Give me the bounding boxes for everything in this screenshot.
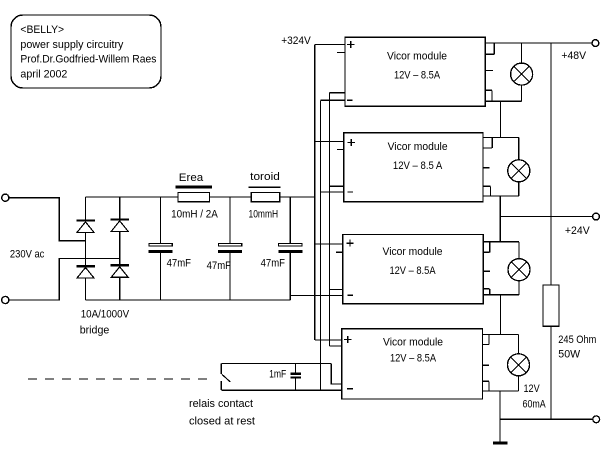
wire U2 +In bbox=[315, 140, 344, 142]
wire 0V bus bbox=[500, 418, 593, 420]
title box bbox=[11, 15, 161, 88]
label 60mA bbox=[523, 398, 547, 410]
wire U4 -S bbox=[331, 364, 342, 384]
wire U1 +Out / +48V rail bbox=[485, 42, 592, 44]
svg-text:10mmH: 10mmH bbox=[249, 209, 279, 221]
label bridge bbox=[80, 325, 110, 337]
inductor L2 toroid bbox=[249, 171, 281, 220]
wire DC+ top bus bbox=[86, 196, 315, 198]
wire U2 +Out bbox=[483, 137, 519, 139]
wire resistor bottom lead bbox=[550, 326, 552, 419]
svg-text:245 Ohm: 245 Ohm bbox=[558, 334, 596, 346]
svg-text:47mF: 47mF bbox=[261, 257, 285, 269]
wire U1 +S stub bbox=[337, 51, 345, 53]
op-amp U4 Vicor module box bbox=[342, 329, 483, 399]
svg-text:47mF: 47mF bbox=[167, 257, 191, 269]
wire U2 -S bbox=[330, 185, 344, 187]
svg-text:1mF: 1mF bbox=[269, 369, 286, 381]
lamp LP3 bbox=[508, 259, 530, 281]
lamp LP1 bbox=[511, 63, 533, 85]
wire +324V rail vertical A bbox=[314, 45, 316, 340]
pin U2 trim stub bbox=[483, 167, 490, 169]
pin U1 +Out tab bbox=[485, 43, 494, 54]
wire AC N to bridge bbox=[9, 258, 120, 300]
wire return bus B bbox=[320, 100, 322, 390]
pin U3 +Out tab bbox=[483, 242, 490, 253]
diode D2 bbox=[76, 265, 95, 278]
wire DC- bottom bus bbox=[86, 299, 291, 301]
svg-text:Erea: Erea bbox=[179, 172, 204, 184]
svg-text:toroid: toroid bbox=[250, 171, 280, 183]
wire series link U2-U3 bbox=[499, 196, 501, 242]
svg-text:10mH / 2A: 10mH / 2A bbox=[171, 209, 218, 221]
wire U2 +S stub bbox=[337, 148, 344, 150]
lamp LP2 bbox=[508, 160, 530, 182]
wire lamp LP4 bottom lead bbox=[518, 376, 520, 391]
wire U3 +Out bbox=[483, 241, 519, 243]
svg-text:+48V: +48V bbox=[561, 50, 586, 62]
wire U1 -Out bbox=[485, 100, 521, 102]
svg-text:+324V: +324V bbox=[281, 35, 311, 47]
wire lamp LP3 top lead bbox=[518, 242, 520, 259]
label +324V bbox=[281, 35, 311, 47]
op-amp U2 Vicor module box bbox=[344, 133, 483, 202]
svg-text:bridge: bridge bbox=[80, 325, 110, 337]
terminal +48V bbox=[592, 40, 599, 47]
wire ground drop bbox=[499, 391, 501, 441]
pin U4 trim stub bbox=[483, 364, 490, 366]
svg-text:Vicor module: Vicor module bbox=[387, 50, 447, 62]
capacitor C1 47mF bbox=[149, 197, 191, 300]
label +24V bbox=[565, 225, 590, 237]
svg-text:12V – 8.5 A: 12V – 8.5 A bbox=[393, 160, 443, 172]
pin U3 -Out tab bbox=[483, 289, 490, 295]
wire U3 +In bbox=[315, 243, 343, 245]
wire U3 -S bbox=[330, 288, 343, 290]
wire relay top bbox=[221, 363, 331, 365]
terminal AC N bbox=[2, 296, 9, 303]
svg-text:12V – 8.5A: 12V – 8.5A bbox=[394, 69, 440, 81]
pin U2 -Out tab bbox=[483, 186, 491, 196]
wire bridge left column bbox=[85, 197, 87, 300]
pin U1 trim stub bbox=[485, 69, 493, 71]
op-amp U3 Vicor module box bbox=[343, 235, 483, 304]
wire lamp LP2 top lead bbox=[518, 138, 520, 160]
diode D3 bbox=[110, 218, 129, 231]
svg-text:Vicor module: Vicor module bbox=[383, 336, 443, 348]
svg-text:12V: 12V bbox=[524, 383, 541, 395]
label closed at rest bbox=[189, 416, 256, 428]
wire lamp LP1 bottom lead bbox=[521, 85, 523, 101]
label 50W bbox=[558, 349, 580, 361]
diode D4 bbox=[110, 264, 129, 277]
pin U2 +Out tab bbox=[483, 138, 492, 148]
lamp LP4 bbox=[508, 354, 530, 376]
wire U4 -In / relay return bbox=[221, 389, 341, 391]
svg-text:Vicor module: Vicor module bbox=[388, 141, 448, 153]
wire U2 -In bbox=[321, 191, 344, 193]
wire U1 -In bbox=[321, 99, 346, 101]
wire U4 +In bbox=[315, 339, 342, 341]
svg-text:april 2002: april 2002 bbox=[20, 69, 67, 81]
wire sense bus C bbox=[329, 93, 331, 346]
svg-text:12V – 8.5A: 12V – 8.5A bbox=[390, 353, 436, 365]
capacitor C4 1mF bbox=[269, 364, 301, 391]
svg-text:47mF: 47mF bbox=[207, 260, 231, 272]
wire bridge right column bbox=[119, 197, 121, 300]
ground bbox=[493, 441, 508, 444]
svg-text:60mA: 60mA bbox=[523, 398, 547, 410]
svg-text:power supply circuitry: power supply circuitry bbox=[20, 39, 123, 51]
resistor R1 245 Ohm bbox=[543, 285, 559, 326]
svg-text:relais contact: relais contact bbox=[189, 398, 254, 410]
label 12V bbox=[524, 383, 541, 395]
terminal +24V bbox=[593, 213, 600, 220]
svg-text:Prof.Dr.Godfried-Willem Raes: Prof.Dr.Godfried-Willem Raes bbox=[20, 54, 156, 66]
svg-text:230V ac: 230V ac bbox=[10, 248, 45, 260]
pin U3 trim stub bbox=[483, 270, 490, 272]
label +48V bbox=[561, 50, 586, 62]
wire U2 -Out bbox=[483, 195, 519, 197]
svg-text:10A/1000V: 10A/1000V bbox=[81, 308, 130, 320]
wire U3 +S stub bbox=[336, 251, 343, 253]
wire AC L to bridge bbox=[9, 198, 85, 241]
capacitor C3 47mF bbox=[261, 197, 303, 300]
wire U4 +S bbox=[330, 345, 342, 347]
svg-text:50W: 50W bbox=[558, 349, 580, 361]
svg-text:Vicor module: Vicor module bbox=[383, 246, 443, 258]
wire series link U1-U2 bbox=[499, 101, 501, 137]
diode D1 bbox=[76, 219, 95, 232]
label relais contact bbox=[189, 398, 254, 410]
svg-text:closed at rest: closed at rest bbox=[189, 416, 256, 428]
wire U3 -Out bbox=[483, 294, 519, 296]
pin U4 +Out tab bbox=[483, 334, 490, 344]
wire lamp LP3 bottom lead bbox=[518, 281, 520, 295]
wire lamp LP4 top lead bbox=[518, 334, 520, 353]
wire lamp LP2 bottom lead bbox=[518, 182, 520, 196]
wire +324V to module U1 bbox=[315, 44, 345, 46]
svg-text:+24V: +24V bbox=[565, 225, 590, 237]
wire +48V drop to resistor bbox=[550, 43, 552, 285]
wire U3 -In to bottom bus bbox=[290, 295, 343, 297]
wire series link U3-U4 bbox=[500, 295, 502, 335]
capacitor C2 47mF bbox=[207, 197, 242, 300]
svg-text:<BELLY>: <BELLY> bbox=[20, 24, 64, 36]
terminal 0V bbox=[593, 416, 600, 423]
op-amp U1 Vicor module box bbox=[345, 37, 485, 106]
wire U4 +Out bbox=[483, 333, 519, 335]
label 245 Ohm bbox=[558, 334, 596, 346]
dashed separation line bbox=[28, 378, 210, 380]
pin U4 -Out tab bbox=[483, 381, 490, 391]
inductor L1 Erea bbox=[171, 172, 218, 221]
wire U1 -S bbox=[330, 92, 345, 94]
pin U1 -Out tab bbox=[485, 90, 492, 101]
label 10A/1000V bbox=[81, 308, 130, 320]
svg-text:12V – 8.5A: 12V – 8.5A bbox=[389, 265, 435, 277]
wire U4 -Out bbox=[483, 390, 519, 392]
terminal AC L bbox=[2, 194, 9, 201]
label 230V ac bbox=[10, 248, 45, 260]
wire lamp LP1 top lead bbox=[521, 43, 523, 63]
wire +24V tap bbox=[500, 216, 592, 218]
relay contact K1 bbox=[221, 364, 230, 391]
